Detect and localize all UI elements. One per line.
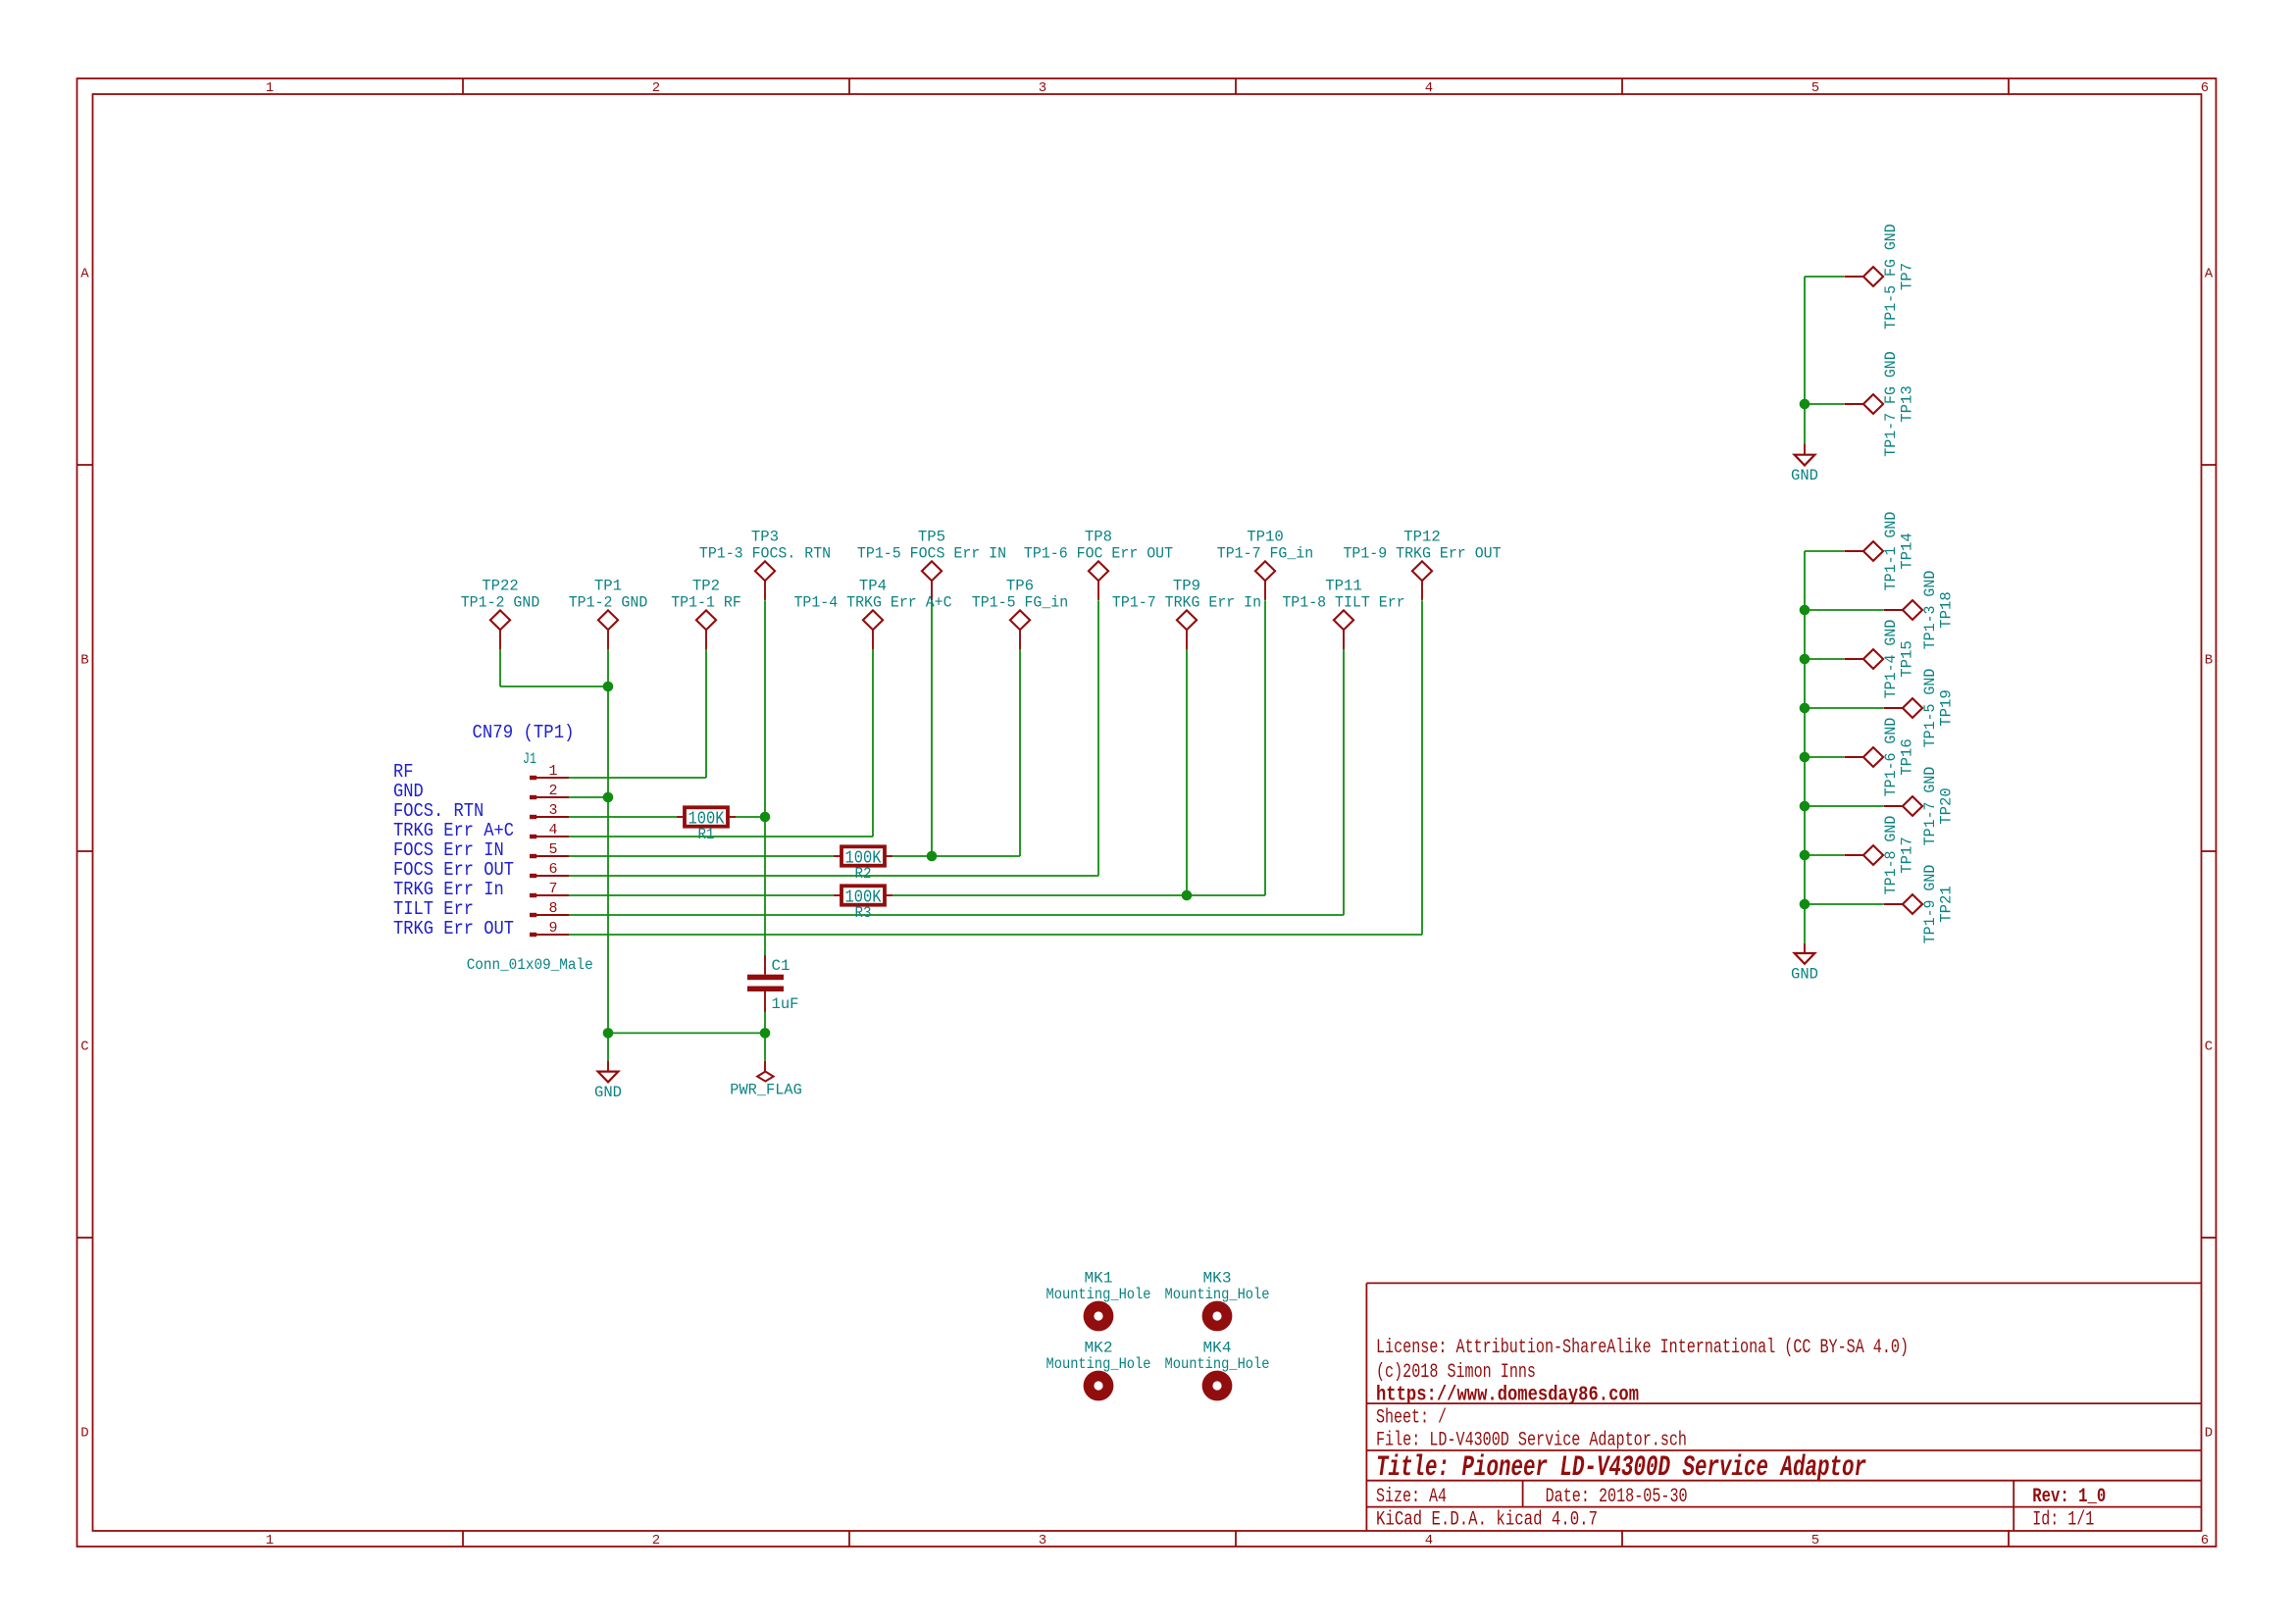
connector J1 pin 7 TRKG Err In xyxy=(393,879,569,900)
svg-text:TP5: TP5 xyxy=(918,529,945,546)
svg-text:TP1-9 TRKG Err OUT: TP1-9 TRKG Err OUT xyxy=(1343,544,1501,562)
svg-text:C1: C1 xyxy=(772,957,790,975)
svg-text:CN79 (TP1): CN79 (TP1) xyxy=(473,722,575,743)
wire pin5 to R2 xyxy=(569,855,834,857)
svg-text:2: 2 xyxy=(652,80,660,96)
test point TP5 (TP1-5 FOCS Err IN) xyxy=(857,529,1006,600)
connector J1 CN79 (TP1) xyxy=(467,722,593,974)
svg-text:TP13: TP13 xyxy=(1898,385,1915,423)
frame row letters xyxy=(80,267,2214,1442)
svg-text:5: 5 xyxy=(548,841,557,858)
svg-text:FOCS. RTN: FOCS. RTN xyxy=(393,800,484,822)
svg-text:TP1-4 TRKG Err A+C: TP1-4 TRKG Err A+C xyxy=(793,593,951,611)
svg-text:4: 4 xyxy=(1425,1533,1433,1548)
svg-text:Id: 1/1: Id: 1/1 xyxy=(2032,1509,2094,1532)
svg-text:TP9: TP9 xyxy=(1173,578,1200,595)
svg-text:A: A xyxy=(2205,267,2214,282)
test point TP15 (TP1-4 GND) xyxy=(1844,620,1915,699)
svg-text:TP3: TP3 xyxy=(751,529,779,546)
test point TP14 (TP1-1 GND) xyxy=(1844,512,1915,591)
title block size date rev xyxy=(1376,1486,2106,1508)
wire top right TP7 TP13 GND xyxy=(1805,277,1844,444)
svg-text:5: 5 xyxy=(1811,80,1819,96)
svg-text:TP18: TP18 xyxy=(1937,591,1955,629)
svg-text:MK1: MK1 xyxy=(1085,1270,1113,1288)
resistor R2 100K xyxy=(834,846,892,883)
test point TP2 (TP1-1 RF) xyxy=(671,578,741,649)
svg-text:TP8: TP8 xyxy=(1085,529,1112,546)
svg-text:MK3: MK3 xyxy=(1203,1270,1232,1288)
test point TP12 (TP1-9 TRKG Err OUT) xyxy=(1343,529,1501,600)
svg-text:TP1-1 RF: TP1-1 RF xyxy=(671,593,741,611)
junction GND rail left xyxy=(603,1028,614,1039)
wire GND net TP22 TP1 xyxy=(500,649,608,1034)
svg-text:TP12: TP12 xyxy=(1403,529,1441,546)
junction R1-TP3 node xyxy=(760,812,771,823)
svg-text:2: 2 xyxy=(548,783,557,799)
svg-text:TP1-5 FOCS Err IN: TP1-5 FOCS Err IN xyxy=(857,544,1006,562)
frame column numbers xyxy=(266,80,2209,1548)
svg-text:TP1-8 TILT Err: TP1-8 TILT Err xyxy=(1282,593,1404,611)
svg-text:TP14: TP14 xyxy=(1898,533,1915,570)
svg-text:RF: RF xyxy=(393,761,414,783)
svg-text:FOCS Err IN: FOCS Err IN xyxy=(393,839,504,861)
svg-text:TP17: TP17 xyxy=(1898,837,1915,874)
svg-text:File: LD-V4300D Service Adapto: File: LD-V4300D Service Adaptor.sch xyxy=(1376,1429,1687,1451)
svg-text:6: 6 xyxy=(2201,1533,2209,1548)
svg-text:3: 3 xyxy=(1039,1533,1046,1548)
svg-text:TP22: TP22 xyxy=(482,578,519,595)
svg-text:R1: R1 xyxy=(698,826,715,843)
connector J1 pin 6 FOCS Err OUT xyxy=(393,859,569,881)
svg-text:TP1-5 GND: TP1-5 GND xyxy=(1921,669,1939,748)
connector J1 pin 1 RF xyxy=(393,761,569,783)
svg-text:7: 7 xyxy=(548,881,557,897)
svg-text:TP1-8 GND: TP1-8 GND xyxy=(1882,816,1900,895)
svg-text:3: 3 xyxy=(548,802,557,819)
svg-text:R2: R2 xyxy=(855,865,872,883)
svg-text:GND: GND xyxy=(1791,467,1818,484)
svg-text:GND: GND xyxy=(1791,965,1818,983)
svg-text:2: 2 xyxy=(652,1533,660,1548)
svg-text:TP1-7 FG GND: TP1-7 FG GND xyxy=(1882,351,1900,456)
test point TP10 (TP1-7 FG_in) xyxy=(1217,529,1313,600)
wire R1 to TP3 node xyxy=(736,816,765,818)
svg-text:KiCad E.D.A. kicad 4.0.7: KiCad E.D.A. kicad 4.0.7 xyxy=(1376,1509,1598,1532)
svg-text:License: Attribution-ShareAlik: License: Attribution-ShareAlike Internat… xyxy=(1376,1337,1909,1359)
connector J1 pin 8 TILT Err xyxy=(393,898,569,920)
junction GND rail C1 xyxy=(760,1028,771,1039)
wire pin3 to R1 xyxy=(569,816,677,818)
svg-text:Mounting_Hole: Mounting_Hole xyxy=(1046,1355,1151,1373)
svg-text:TP15: TP15 xyxy=(1898,640,1915,678)
svg-text:6: 6 xyxy=(548,861,557,878)
junction R3-TP9 node xyxy=(1182,890,1193,901)
svg-text:TP1-2 GND: TP1-2 GND xyxy=(569,593,648,611)
svg-text:TP1-6 GND: TP1-6 GND xyxy=(1882,718,1900,797)
svg-text:TP10: TP10 xyxy=(1247,529,1284,546)
test point TP20 (TP1-7 GND) xyxy=(1883,767,1955,846)
test point TP13 (TP1-7 FG GND) xyxy=(1844,351,1915,456)
svg-text:TP4: TP4 xyxy=(859,578,887,595)
svg-text:A: A xyxy=(80,267,89,282)
test point TP21 (TP1-9 GND) xyxy=(1883,865,1955,944)
wire pin9 to TP12 xyxy=(569,600,1422,935)
junction right bus y822 xyxy=(1800,801,1810,812)
mounting hole MK3 xyxy=(1165,1270,1270,1332)
svg-text:TP19: TP19 xyxy=(1937,689,1955,727)
wire R2 to TP5 and TP6 xyxy=(892,600,1020,856)
wire pin8 to TP11 xyxy=(569,649,1344,916)
capacitor C1 1uF xyxy=(747,955,799,1013)
svg-text:TP1-5 FG GND: TP1-5 FG GND xyxy=(1882,224,1900,329)
svg-text:3: 3 xyxy=(1039,80,1046,96)
test point TP11 (TP1-8 TILT Err) xyxy=(1282,578,1404,649)
wire right GND bus xyxy=(1805,551,1883,943)
ground symbol GND xyxy=(1791,943,1818,984)
svg-text:1: 1 xyxy=(266,80,274,96)
svg-text:Date: 2018-05-30: Date: 2018-05-30 xyxy=(1546,1486,1688,1508)
connector J1 pin 4 TRKG Err A+C xyxy=(393,820,569,841)
test point TP1 (TP1-2 GND) xyxy=(569,578,648,649)
svg-text:1: 1 xyxy=(266,1533,274,1548)
wire FOCS.RTN vertical TP3 to C1 xyxy=(764,600,766,955)
svg-text:TP21: TP21 xyxy=(1937,886,1955,923)
svg-text:R3: R3 xyxy=(855,904,872,922)
svg-text:TP1-7 FG_in: TP1-7 FG_in xyxy=(1217,544,1313,562)
svg-text:MK4: MK4 xyxy=(1203,1340,1232,1357)
svg-text:C: C xyxy=(2205,1040,2213,1055)
svg-text:Conn_01x09_Male: Conn_01x09_Male xyxy=(467,956,593,974)
test point TP22 (TP1-2 GND) xyxy=(461,578,540,649)
svg-text:TP11: TP11 xyxy=(1325,578,1362,595)
junction TP13 node xyxy=(1800,399,1810,410)
title block sheet and file xyxy=(1376,1406,1687,1451)
junction right bus y622 xyxy=(1800,605,1810,616)
svg-text:TP1-1 GND: TP1-1 GND xyxy=(1882,512,1900,591)
svg-text:TP1: TP1 xyxy=(594,578,622,595)
connector J1 pin 9 TRKG Err OUT xyxy=(393,918,569,939)
svg-text:https://www.domesday86.com: https://www.domesday86.com xyxy=(1376,1384,1639,1406)
junction right bus y672 xyxy=(1800,654,1810,665)
svg-text:TP1-3 FOCS. RTN: TP1-3 FOCS. RTN xyxy=(699,544,831,562)
test point TP7 (TP1-5 FG GND) xyxy=(1844,224,1915,329)
junction at TP1 GND bus xyxy=(603,682,614,692)
svg-text:TRKG Err In: TRKG Err In xyxy=(393,879,504,900)
junction pin2 GND xyxy=(603,792,614,803)
svg-text:Mounting_Hole: Mounting_Hole xyxy=(1046,1286,1151,1303)
svg-text:TP16: TP16 xyxy=(1898,738,1915,776)
svg-text:Sheet: /: Sheet: / xyxy=(1376,1406,1447,1429)
wire pin7 to R3 xyxy=(569,894,834,896)
power flag PWR_FLAG xyxy=(730,1061,802,1099)
svg-text:4: 4 xyxy=(1425,80,1433,96)
svg-text:PWR_FLAG: PWR_FLAG xyxy=(730,1081,802,1098)
svg-text:FOCS Err OUT: FOCS Err OUT xyxy=(393,859,514,881)
svg-text:MK2: MK2 xyxy=(1085,1340,1113,1357)
svg-text:TP2: TP2 xyxy=(692,578,720,595)
junction right bus y922 xyxy=(1800,899,1810,910)
svg-text:TRKG Err OUT: TRKG Err OUT xyxy=(393,918,514,939)
title block license text xyxy=(1376,1337,1909,1406)
test point TP18 (TP1-3 GND) xyxy=(1883,571,1955,650)
test point TP4 (TP1-4 TRKG Err A+C) xyxy=(793,578,951,649)
svg-text:TP1-7 GND: TP1-7 GND xyxy=(1921,767,1939,846)
wire GND rail to C1 bottom xyxy=(608,1012,765,1061)
svg-text:B: B xyxy=(80,653,88,669)
test point TP6 (TP1-5 FG_in) xyxy=(972,578,1068,649)
test point TP8 (TP1-6 FOC Err OUT) xyxy=(1024,529,1173,600)
svg-text:Title: Pioneer LD-V4300D Servi: Title: Pioneer LD-V4300D Service Adaptor xyxy=(1376,1451,1866,1485)
junction R2-TP5 node xyxy=(927,851,938,862)
test point TP19 (TP1-5 GND) xyxy=(1883,669,1955,748)
title block title xyxy=(1376,1451,1866,1485)
svg-text:Size: A4: Size: A4 xyxy=(1376,1486,1447,1508)
test point TP9 (TP1-7 TRKG Err In) xyxy=(1112,578,1261,649)
mounting hole MK1 xyxy=(1046,1270,1151,1332)
svg-text:D: D xyxy=(80,1426,88,1442)
svg-text:TP1-5 FG_in: TP1-5 FG_in xyxy=(972,593,1068,611)
connector J1 pin 3 FOCS. RTN xyxy=(393,800,569,822)
svg-text:6: 6 xyxy=(2201,80,2209,96)
svg-text:TP1-2 GND: TP1-2 GND xyxy=(461,593,540,611)
svg-text:1uF: 1uF xyxy=(772,995,799,1013)
wire pin2 GND to bus xyxy=(569,796,608,798)
ground symbol GND xyxy=(1791,444,1818,484)
junction right bus y722 xyxy=(1800,703,1810,714)
wire pin6 to TP8 xyxy=(569,600,1098,876)
wire R3 to TP9 and TP10 xyxy=(892,600,1265,895)
svg-text:TP1-3 GND: TP1-3 GND xyxy=(1921,571,1939,650)
svg-text:Rev: 1_0: Rev: 1_0 xyxy=(2032,1486,2106,1508)
svg-text:Mounting_Hole: Mounting_Hole xyxy=(1165,1355,1270,1373)
svg-text:TP1-4 GND: TP1-4 GND xyxy=(1882,620,1900,699)
title block kicad id xyxy=(1376,1509,2094,1532)
svg-text:(c)2018 Simon Inns: (c)2018 Simon Inns xyxy=(1376,1361,1536,1384)
svg-text:TP6: TP6 xyxy=(1006,578,1034,595)
junction right bus y872 xyxy=(1800,850,1810,861)
svg-text:TP7: TP7 xyxy=(1898,263,1915,290)
svg-text:C: C xyxy=(80,1040,88,1055)
svg-text:TILT Err: TILT Err xyxy=(393,898,474,920)
svg-text:J1: J1 xyxy=(523,750,536,768)
svg-text:TP1-9 GND: TP1-9 GND xyxy=(1921,865,1939,944)
test point TP17 (TP1-8 GND) xyxy=(1844,816,1915,895)
svg-text:9: 9 xyxy=(548,920,557,937)
svg-text:TP1-6 FOC Err OUT: TP1-6 FOC Err OUT xyxy=(1024,544,1173,562)
svg-text:B: B xyxy=(2205,653,2213,669)
svg-text:Mounting_Hole: Mounting_Hole xyxy=(1165,1286,1270,1303)
svg-text:TP20: TP20 xyxy=(1937,787,1955,825)
resistor R1 100K xyxy=(677,807,736,843)
mounting hole MK4 xyxy=(1165,1340,1270,1401)
junction right bus y772 xyxy=(1800,752,1810,763)
svg-text:8: 8 xyxy=(548,900,557,917)
svg-text:GND: GND xyxy=(393,781,424,802)
test point TP16 (TP1-6 GND) xyxy=(1844,718,1915,797)
resistor R3 100K xyxy=(834,886,892,922)
title block frame xyxy=(1366,1283,2201,1531)
connector J1 pin 5 FOCS Err IN xyxy=(393,839,569,861)
wire pin4 to TP4 xyxy=(569,649,873,837)
wire pin1 RF to TP2 xyxy=(569,649,706,779)
svg-text:D: D xyxy=(2205,1426,2213,1442)
mounting hole MK2 xyxy=(1046,1340,1151,1401)
svg-text:TP1-7 TRKG Err In: TP1-7 TRKG Err In xyxy=(1112,593,1261,611)
svg-text:5: 5 xyxy=(1811,1533,1819,1548)
svg-text:4: 4 xyxy=(548,822,557,838)
svg-text:1: 1 xyxy=(548,763,557,780)
svg-text:TRKG Err A+C: TRKG Err A+C xyxy=(393,820,514,841)
ground symbol GND xyxy=(594,1061,622,1101)
test point TP3 (TP1-3 FOCS. RTN) xyxy=(699,529,831,600)
svg-text:GND: GND xyxy=(594,1084,622,1101)
connector J1 pin 2 GND xyxy=(393,781,569,802)
